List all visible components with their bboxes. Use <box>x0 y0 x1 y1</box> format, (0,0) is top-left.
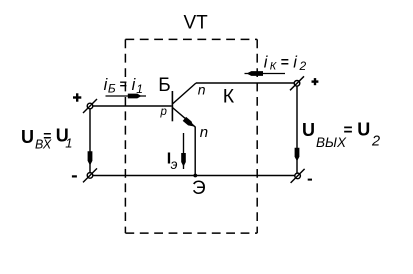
svg-text:2: 2 <box>371 133 380 149</box>
current arrow iK (left) <box>245 71 286 76</box>
svg-text:Б: Б <box>158 75 170 96</box>
transistor boundary dashed box VT <box>125 39 257 233</box>
svg-text:U: U <box>21 127 34 147</box>
voltage arrow right (down) <box>295 148 300 162</box>
junction dot emitter/bottom rail <box>193 174 197 178</box>
label Uvyx = U2 <box>302 120 380 150</box>
transistor VT base bar <box>171 91 173 121</box>
voltage arrow left (down) <box>88 151 93 165</box>
wire left vertical <box>89 109 91 173</box>
terminal top-right <box>290 76 304 90</box>
wire bottom rail <box>93 175 295 177</box>
terminal bottom-right <box>291 169 305 183</box>
wire right vertical <box>296 86 298 173</box>
svg-text:=: = <box>281 53 289 69</box>
svg-text:=: = <box>120 78 127 92</box>
minus sign bottom-left <box>72 175 77 177</box>
current arrow iB (right) <box>106 94 147 99</box>
label Uvx = U1 <box>21 126 73 152</box>
current arrow IE (down) <box>181 133 186 169</box>
svg-text:VT: VT <box>184 13 209 34</box>
svg-text:U: U <box>357 120 370 140</box>
label iK = i2 <box>264 53 307 73</box>
terminal top-left <box>83 99 97 113</box>
wire base horizontal <box>93 105 172 107</box>
plus sign left <box>73 93 81 101</box>
svg-text:1: 1 <box>65 136 72 151</box>
svg-text:=: = <box>344 122 353 139</box>
transistor emitter arrowhead <box>183 117 194 127</box>
svg-text:К: К <box>270 60 277 72</box>
svg-text:э: э <box>171 156 178 172</box>
wire collector horizontal <box>196 82 294 84</box>
svg-text:p: p <box>160 106 168 118</box>
label IE (emitter current) <box>167 150 178 172</box>
minus sign bottom-right <box>308 179 312 181</box>
wire emitter vertical <box>194 127 196 176</box>
svg-text:U: U <box>302 120 315 140</box>
svg-text:1: 1 <box>136 82 143 96</box>
svg-text:К: К <box>223 86 235 108</box>
transistor collector diagonal <box>172 83 196 104</box>
svg-text:n: n <box>200 124 208 141</box>
terminal bottom-left <box>83 168 97 182</box>
svg-text:Б: Б <box>108 82 116 96</box>
plus sign right <box>312 78 319 85</box>
svg-text:=: = <box>43 127 51 143</box>
svg-text:ВЫХ: ВЫХ <box>316 135 347 150</box>
transistor emitter diagonal <box>172 108 195 127</box>
label iB = i1 <box>104 76 143 96</box>
svg-text:n: n <box>198 82 206 98</box>
svg-text:2: 2 <box>299 59 307 73</box>
svg-text:Э: Э <box>192 178 206 199</box>
